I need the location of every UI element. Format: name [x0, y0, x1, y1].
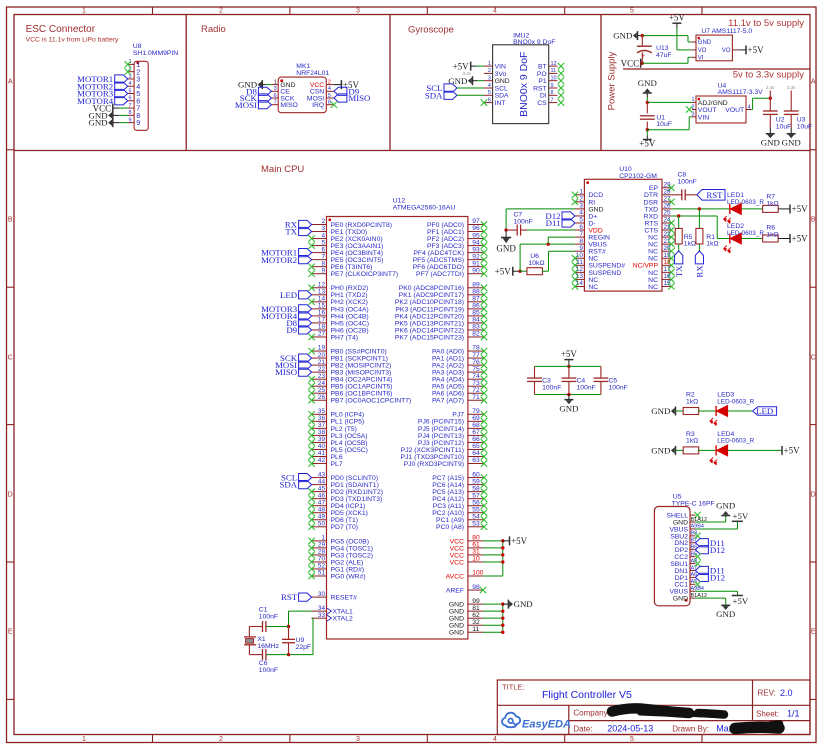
svg-text:TX: TX: [674, 265, 684, 277]
svg-text:74: 74: [472, 373, 480, 380]
svg-text:63: 63: [472, 457, 480, 464]
svg-text:Gyroscope: Gyroscope: [408, 25, 454, 36]
svg-text:PC6 (A14): PC6 (A14): [432, 482, 464, 489]
svg-text:RST#: RST#: [588, 249, 606, 256]
svg-text:34: 34: [318, 605, 326, 612]
svg-text:A5: A5: [691, 579, 698, 585]
svg-text:83: 83: [472, 324, 480, 331]
svg-text:NC: NC: [648, 277, 658, 284]
svg-text:10: 10: [472, 556, 480, 563]
svg-text:PC4 (A12): PC4 (A12): [432, 496, 464, 503]
svg-text:1: 1: [274, 79, 277, 85]
svg-text:SUSPEND: SUSPEND: [588, 270, 621, 277]
svg-text:PE0 (RXD0PCINT8): PE0 (RXD0PCINT8): [331, 222, 393, 229]
svg-text:Sheet:: Sheet:: [756, 709, 779, 718]
svg-text:C4: C4: [577, 378, 586, 385]
svg-text:32: 32: [472, 619, 480, 626]
svg-text:8: 8: [328, 100, 331, 106]
svg-text:24: 24: [664, 217, 672, 224]
svg-text:72: 72: [472, 387, 480, 394]
svg-text:PD5 (XCK1): PD5 (XCK1): [331, 510, 368, 517]
svg-text:PA2 (AD2): PA2 (AD2): [432, 363, 464, 370]
svg-text:GND: GND: [449, 602, 464, 609]
svg-text:PK3 (ADC11PCINT19): PK3 (ADC11PCINT19): [395, 306, 464, 313]
svg-text:PJ3 (PCINT12): PJ3 (PCINT12): [418, 440, 464, 447]
svg-text:MOSI: MOSI: [235, 100, 257, 110]
svg-text:5: 5: [488, 90, 491, 96]
svg-text:REGIN: REGIN: [588, 235, 610, 242]
svg-text:MISO: MISO: [280, 102, 297, 109]
svg-text:Main CPU: Main CPU: [261, 164, 304, 175]
svg-text:81: 81: [472, 605, 480, 612]
svg-text:MOTOR2: MOTOR2: [261, 255, 297, 265]
svg-text:U12: U12: [393, 198, 406, 205]
svg-text:22: 22: [318, 366, 326, 373]
svg-text:96: 96: [472, 225, 480, 232]
svg-text:VOUT: VOUT: [698, 107, 717, 114]
svg-text:PJ0 (RXD3PCINT9): PJ0 (RXD3PCINT9): [404, 461, 464, 468]
svg-text:RXD: RXD: [644, 213, 658, 220]
svg-text:47uF: 47uF: [656, 52, 672, 59]
svg-text:93: 93: [472, 246, 480, 253]
svg-text:23: 23: [664, 224, 672, 231]
svg-text:66: 66: [472, 436, 480, 443]
svg-text:NC: NC: [648, 235, 658, 242]
svg-text:26: 26: [318, 394, 326, 401]
svg-text:RST: RST: [533, 85, 547, 92]
svg-text:8: 8: [321, 260, 325, 267]
svg-text:27: 27: [664, 196, 672, 203]
svg-text:100nF: 100nF: [609, 385, 628, 392]
svg-text:100nF: 100nF: [542, 385, 561, 392]
svg-text:VDD: VDD: [588, 227, 602, 234]
svg-text:PK5 (ADC13PCINT21): PK5 (ADC13PCINT21): [395, 320, 464, 327]
svg-text:C3: C3: [542, 378, 551, 385]
svg-text:ATMEGA2560-16AU: ATMEGA2560-16AU: [393, 205, 456, 212]
svg-text:9: 9: [321, 267, 325, 274]
svg-text:26: 26: [664, 203, 672, 210]
svg-text:C: C: [8, 355, 13, 362]
svg-text:XTAL1: XTAL1: [333, 609, 353, 616]
svg-text:PK7 (ADC15PCINT23): PK7 (ADC15PCINT23): [395, 334, 464, 341]
svg-text:NC: NC: [588, 256, 598, 263]
svg-text:67: 67: [472, 429, 480, 436]
svg-text:D: D: [8, 492, 13, 499]
svg-text:21: 21: [318, 359, 326, 366]
svg-text:8: 8: [128, 110, 131, 116]
svg-text:28: 28: [318, 549, 326, 556]
svg-text:GND: GND: [496, 244, 516, 254]
svg-text:BNO0x 9 DoF: BNO0x 9 DoF: [518, 52, 530, 117]
svg-text:U7 AMS1117-5.0: U7 AMS1117-5.0: [701, 28, 752, 35]
svg-text:10: 10: [576, 252, 584, 259]
svg-text:PF3 (ADC3): PF3 (ADC3): [427, 243, 464, 250]
svg-text:AREF: AREF: [446, 587, 464, 594]
svg-text:PL0 (ICP4): PL0 (ICP4): [331, 412, 365, 419]
svg-text:MISO: MISO: [348, 93, 370, 103]
svg-text:11: 11: [551, 68, 557, 74]
svg-text:PG4 (TOSC1): PG4 (TOSC1): [331, 545, 374, 552]
svg-text:IRQ: IRQ: [312, 102, 324, 109]
svg-text:28: 28: [664, 189, 672, 196]
svg-text:DCD: DCD: [588, 192, 603, 199]
svg-text:10uF: 10uF: [776, 123, 792, 130]
svg-text:PH7 (T4): PH7 (T4): [331, 334, 359, 341]
svg-text:2: 2: [321, 218, 325, 225]
svg-text:PK6 (ADC14PCINT22): PK6 (ADC14PCINT22): [395, 327, 464, 334]
svg-text:PD0 (SCLINT0): PD0 (SCLINT0): [331, 475, 379, 482]
svg-text:25: 25: [318, 387, 326, 394]
svg-text:PF0 (ADC0): PF0 (ADC0): [427, 222, 464, 229]
svg-text:+5V: +5V: [639, 139, 656, 149]
svg-text:+5V: +5V: [733, 596, 749, 606]
svg-text:75: 75: [472, 366, 480, 373]
svg-text:RX: RX: [695, 265, 705, 278]
svg-text:22pF: 22pF: [296, 644, 312, 651]
svg-text:GND: GND: [449, 609, 464, 616]
svg-text:14: 14: [576, 280, 584, 287]
svg-text:PD3 (TXD1INT3): PD3 (TXD1INT3): [331, 496, 383, 503]
svg-text:PC0 (A8): PC0 (A8): [436, 524, 464, 531]
svg-text:PH4 (OC4B): PH4 (OC4B): [331, 313, 369, 320]
svg-text:6: 6: [128, 96, 131, 102]
svg-text:C5: C5: [609, 378, 618, 385]
svg-text:99: 99: [472, 598, 480, 605]
svg-text:B: B: [811, 217, 816, 224]
svg-text:A: A: [8, 79, 13, 86]
svg-text:PE1 (TXD0): PE1 (TXD0): [331, 229, 368, 236]
svg-text:38: 38: [318, 429, 326, 436]
svg-text:PA6 (AD6): PA6 (AD6): [432, 391, 464, 398]
svg-text:PB5 (OC1APCINT5): PB5 (OC1APCINT5): [331, 384, 393, 391]
svg-text:47: 47: [318, 499, 326, 506]
svg-text:9: 9: [579, 245, 583, 252]
svg-text:RST: RST: [281, 592, 298, 602]
svg-text:4: 4: [579, 210, 583, 217]
svg-text:70: 70: [318, 556, 326, 563]
svg-text:VIN: VIN: [698, 114, 709, 121]
svg-text:3: 3: [488, 76, 491, 82]
svg-text:1: 1: [488, 61, 491, 67]
svg-text:B: B: [8, 217, 13, 224]
svg-text:71: 71: [472, 394, 480, 401]
svg-text:2024-05-13: 2024-05-13: [607, 724, 653, 734]
svg-text:MISO: MISO: [275, 367, 297, 377]
svg-text:10kΩ: 10kΩ: [529, 260, 545, 267]
svg-text:PE6 (T3INT6): PE6 (T3INT6): [331, 264, 373, 271]
svg-text:6: 6: [321, 246, 325, 253]
svg-text:100nF: 100nF: [259, 613, 278, 620]
svg-text:PH0 (RXD2): PH0 (RXD2): [331, 285, 369, 292]
svg-text:PD6 (T1): PD6 (T1): [331, 517, 359, 524]
svg-text:8: 8: [579, 238, 583, 245]
svg-text:PC2 (A10): PC2 (A10): [432, 510, 464, 517]
svg-text:57: 57: [472, 492, 480, 499]
svg-text:20: 20: [318, 352, 326, 359]
svg-text:8: 8: [551, 90, 554, 96]
svg-text:VO: VO: [722, 48, 731, 54]
svg-text:PE7 (CLKOICP3INT7): PE7 (CLKOICP3INT7): [331, 271, 399, 278]
svg-text:100nF: 100nF: [577, 385, 596, 392]
svg-text:PF6 (ADC6TDO): PF6 (ADC6TDO): [413, 264, 464, 271]
svg-text:3: 3: [579, 203, 583, 210]
svg-text:4: 4: [321, 232, 325, 239]
svg-text:17: 17: [664, 266, 672, 273]
svg-text:PH1 (TXD2): PH1 (TXD2): [331, 292, 368, 299]
svg-text:21: 21: [664, 238, 672, 245]
svg-text:GND: GND: [716, 501, 735, 511]
svg-text:ESC Connector: ESC Connector: [26, 24, 96, 35]
svg-text:58: 58: [472, 485, 480, 492]
svg-text:NC: NC: [648, 249, 658, 256]
svg-text:100: 100: [472, 570, 483, 577]
svg-text:PG0 (WR#): PG0 (WR#): [331, 573, 366, 580]
svg-text:Flight Controller V5: Flight Controller V5: [542, 689, 632, 701]
svg-text:45: 45: [318, 485, 326, 492]
svg-text:13: 13: [576, 273, 584, 280]
svg-text:48: 48: [318, 506, 326, 513]
svg-text:RTS: RTS: [645, 220, 659, 227]
svg-text:E: E: [811, 629, 816, 636]
svg-text:PL7: PL7: [331, 461, 343, 468]
svg-text:80: 80: [472, 535, 480, 542]
svg-text:2: 2: [579, 196, 583, 203]
svg-text:95: 95: [472, 232, 480, 239]
svg-text:+5V: +5V: [733, 511, 749, 521]
svg-text:19: 19: [318, 345, 326, 352]
svg-text:78: 78: [472, 345, 480, 352]
svg-text:42: 42: [318, 457, 326, 464]
svg-text:33: 33: [318, 612, 326, 619]
svg-text:PD1 (SDAINT1): PD1 (SDAINT1): [331, 482, 379, 489]
svg-text:PB1 (SCKPCINT1): PB1 (SCKPCINT1): [331, 355, 388, 362]
svg-text:46: 46: [318, 492, 326, 499]
svg-text:VCC: VCC: [450, 559, 464, 566]
svg-text:2: 2: [488, 68, 491, 74]
svg-text:9: 9: [128, 117, 131, 123]
svg-text:A8: A8: [691, 558, 698, 564]
svg-text:7: 7: [274, 100, 277, 106]
svg-text:91: 91: [472, 260, 480, 267]
svg-text:A: A: [811, 79, 816, 86]
svg-text:NC: NC: [648, 284, 658, 291]
svg-text:VCC: VCC: [450, 552, 464, 559]
svg-text:NC: NC: [648, 256, 658, 263]
svg-text:16MHz: 16MHz: [257, 643, 279, 650]
svg-text:PL1 (ICP5): PL1 (ICP5): [331, 419, 365, 426]
svg-text:PL3 (OC5A): PL3 (OC5A): [331, 433, 368, 440]
svg-text:4: 4: [748, 104, 751, 110]
svg-text:PG5 (OC0B): PG5 (OC0B): [331, 538, 370, 545]
svg-text:PK0 (ADC8PCINT16): PK0 (ADC8PCINT16): [399, 285, 464, 292]
svg-text:PB4 (OC2APCINT4): PB4 (OC2APCINT4): [331, 377, 393, 384]
svg-text:PH2 (XCK2): PH2 (XCK2): [331, 299, 368, 306]
svg-text:PL5 (OC5C): PL5 (OC5C): [331, 447, 368, 454]
svg-text:29: 29: [318, 542, 326, 549]
svg-text:SDA: SDA: [425, 90, 443, 100]
svg-text:27: 27: [318, 331, 326, 338]
svg-text:D11: D11: [546, 218, 561, 228]
svg-text:VCC: VCC: [450, 538, 464, 545]
svg-text:DTR: DTR: [644, 192, 658, 199]
svg-text:44: 44: [318, 478, 326, 485]
svg-text:3: 3: [356, 8, 360, 15]
svg-text:PB7 (OC0AOC1CPCINT7): PB7 (OC0AOC1CPCINT7): [331, 398, 412, 405]
svg-text:PL6: PL6: [331, 454, 343, 461]
svg-text:2.0: 2.0: [780, 688, 793, 698]
svg-text:VCC is 11.1v from LiPo battery: VCC is 11.1v from LiPo battery: [26, 37, 119, 44]
svg-text:AVCC: AVCC: [446, 573, 464, 580]
svg-text:PJ6 (PCINT15): PJ6 (PCINT15): [418, 419, 464, 426]
svg-text:GND: GND: [638, 78, 657, 88]
svg-text:15: 15: [664, 280, 672, 287]
svg-text:64: 64: [472, 450, 480, 457]
svg-text:SH1.0MM9PIN: SH1.0MM9PIN: [133, 50, 178, 57]
svg-text:50: 50: [318, 520, 326, 527]
svg-text:EP: EP: [649, 185, 659, 192]
svg-text:87: 87: [472, 296, 480, 303]
svg-text:85: 85: [472, 310, 480, 317]
svg-text:NC/VPP: NC/VPP: [633, 263, 659, 270]
svg-text:C: C: [811, 355, 816, 362]
svg-text:+5V: +5V: [561, 349, 578, 359]
svg-text:EasyEDA: EasyEDA: [522, 719, 571, 731]
svg-text:4: 4: [488, 83, 491, 89]
svg-text:PA5 (AD5): PA5 (AD5): [432, 384, 464, 391]
svg-text:+5V: +5V: [669, 13, 686, 23]
svg-text:NRF24L01: NRF24L01: [296, 70, 329, 77]
svg-text:10uF: 10uF: [797, 123, 813, 130]
svg-text:PJ1 (TXD3PCINT10): PJ1 (TXD3PCINT10): [401, 454, 464, 461]
svg-text:GND: GND: [651, 406, 670, 416]
svg-text:61: 61: [472, 542, 480, 549]
svg-text:GND: GND: [514, 599, 533, 609]
svg-text:PJ5 (PCINT14): PJ5 (PCINT14): [418, 426, 464, 433]
svg-text:100nF: 100nF: [678, 178, 697, 185]
svg-text:GND: GND: [782, 138, 801, 148]
svg-text:VCC: VCC: [450, 545, 464, 552]
svg-text:SUSPEND#: SUSPEND#: [588, 263, 625, 270]
svg-text:PD4 (ICP1): PD4 (ICP1): [331, 503, 366, 510]
svg-text:5v to 3.3v supply: 5v to 3.3v supply: [733, 69, 805, 80]
svg-text:+5V: +5V: [784, 446, 801, 456]
svg-text:7: 7: [128, 103, 131, 109]
svg-text:51: 51: [318, 570, 326, 577]
svg-text:PF7 (ADC7TDI): PF7 (ADC7TDI): [416, 271, 464, 278]
svg-text:D: D: [811, 492, 816, 499]
svg-text:SDA: SDA: [279, 480, 297, 490]
svg-text:+5V: +5V: [792, 234, 809, 244]
svg-text:4: 4: [493, 8, 497, 15]
svg-text:GND: GND: [495, 78, 510, 85]
svg-text:NC: NC: [648, 242, 658, 249]
svg-text:41: 41: [318, 450, 326, 457]
svg-text:PJ4 (PCINT13): PJ4 (PCINT13): [418, 433, 464, 440]
svg-text:1/1: 1/1: [787, 708, 800, 718]
svg-text:6: 6: [579, 224, 583, 231]
svg-text:VCC: VCC: [621, 58, 640, 68]
svg-text:10uF: 10uF: [656, 121, 672, 128]
svg-text:60: 60: [472, 471, 480, 478]
svg-text:NC: NC: [588, 277, 598, 284]
svg-text:VO: VO: [698, 48, 707, 54]
svg-text:PF5 (ADC5TMS): PF5 (ADC5TMS): [413, 257, 464, 264]
svg-text:40: 40: [318, 443, 326, 450]
svg-text:D12: D12: [710, 545, 725, 555]
svg-text:2: 2: [219, 8, 223, 15]
svg-text:PB2 (MOSIPCINT2): PB2 (MOSIPCINT2): [331, 363, 392, 370]
svg-text:GND: GND: [761, 138, 780, 148]
svg-text:GND: GND: [449, 623, 464, 630]
svg-text:1kΩ: 1kΩ: [766, 200, 778, 207]
svg-text:CTS: CTS: [644, 227, 658, 234]
svg-text:59: 59: [472, 478, 480, 485]
svg-text:54: 54: [472, 513, 480, 520]
svg-text:LED-0603_R: LED-0603_R: [717, 438, 754, 445]
svg-text:4: 4: [493, 736, 497, 743]
svg-text:GND: GND: [698, 40, 712, 46]
svg-text:D12: D12: [710, 572, 725, 582]
svg-text:35: 35: [318, 408, 326, 415]
svg-text:65: 65: [472, 443, 480, 450]
svg-text:3: 3: [321, 225, 325, 232]
svg-text:PG2 (ALE): PG2 (ALE): [331, 559, 364, 566]
svg-text:NC: NC: [648, 270, 658, 277]
svg-text:C1: C1: [259, 606, 268, 613]
svg-text:CS: CS: [537, 100, 547, 107]
svg-text:PH6 (OC2B): PH6 (OC2B): [331, 327, 369, 334]
svg-text:6: 6: [488, 97, 491, 103]
svg-text:16: 16: [318, 310, 326, 317]
svg-text:D9: D9: [286, 325, 297, 335]
svg-text:VBUS: VBUS: [588, 242, 607, 249]
svg-text:INT: INT: [495, 100, 506, 107]
svg-text:3.3v: 3.3v: [766, 85, 775, 90]
svg-text:53: 53: [472, 520, 480, 527]
svg-text:PF2 (ADC2): PF2 (ADC2): [427, 236, 464, 243]
svg-text:PE4 (OC3BINT4): PE4 (OC3BINT4): [331, 250, 384, 257]
svg-text:SCL: SCL: [495, 85, 508, 92]
svg-text:62: 62: [472, 612, 480, 619]
svg-text:PC3 (A11): PC3 (A11): [433, 503, 464, 510]
svg-text:5: 5: [630, 8, 634, 15]
svg-text:23: 23: [318, 373, 326, 380]
svg-text:PL4 (OC5B): PL4 (OC5B): [331, 440, 368, 447]
svg-text:1kΩ: 1kΩ: [686, 438, 698, 445]
svg-text:PB3 (MISOPCINT3): PB3 (MISOPCINT3): [331, 370, 392, 377]
svg-text:GND: GND: [449, 616, 464, 623]
svg-text:10: 10: [551, 76, 557, 82]
svg-text:3: 3: [356, 736, 360, 743]
svg-text:100nF: 100nF: [514, 218, 533, 225]
svg-text:36: 36: [318, 415, 326, 422]
svg-text:DI: DI: [540, 93, 547, 100]
svg-text:VOUT: VOUT: [725, 107, 744, 114]
svg-text:39: 39: [318, 436, 326, 443]
svg-text:5: 5: [630, 736, 634, 743]
svg-text:4: 4: [328, 86, 331, 92]
svg-text:7: 7: [551, 97, 554, 103]
svg-text:84: 84: [472, 317, 480, 324]
svg-text:+5V: +5V: [748, 45, 765, 55]
svg-text:4: 4: [128, 81, 131, 87]
svg-text:98: 98: [472, 584, 480, 591]
svg-text:3Vo: 3Vo: [495, 71, 507, 78]
svg-text:RST: RST: [706, 190, 723, 200]
svg-text:13: 13: [318, 289, 326, 296]
svg-text:ADJ/GND: ADJ/GND: [698, 100, 728, 107]
svg-text:31: 31: [472, 549, 480, 556]
